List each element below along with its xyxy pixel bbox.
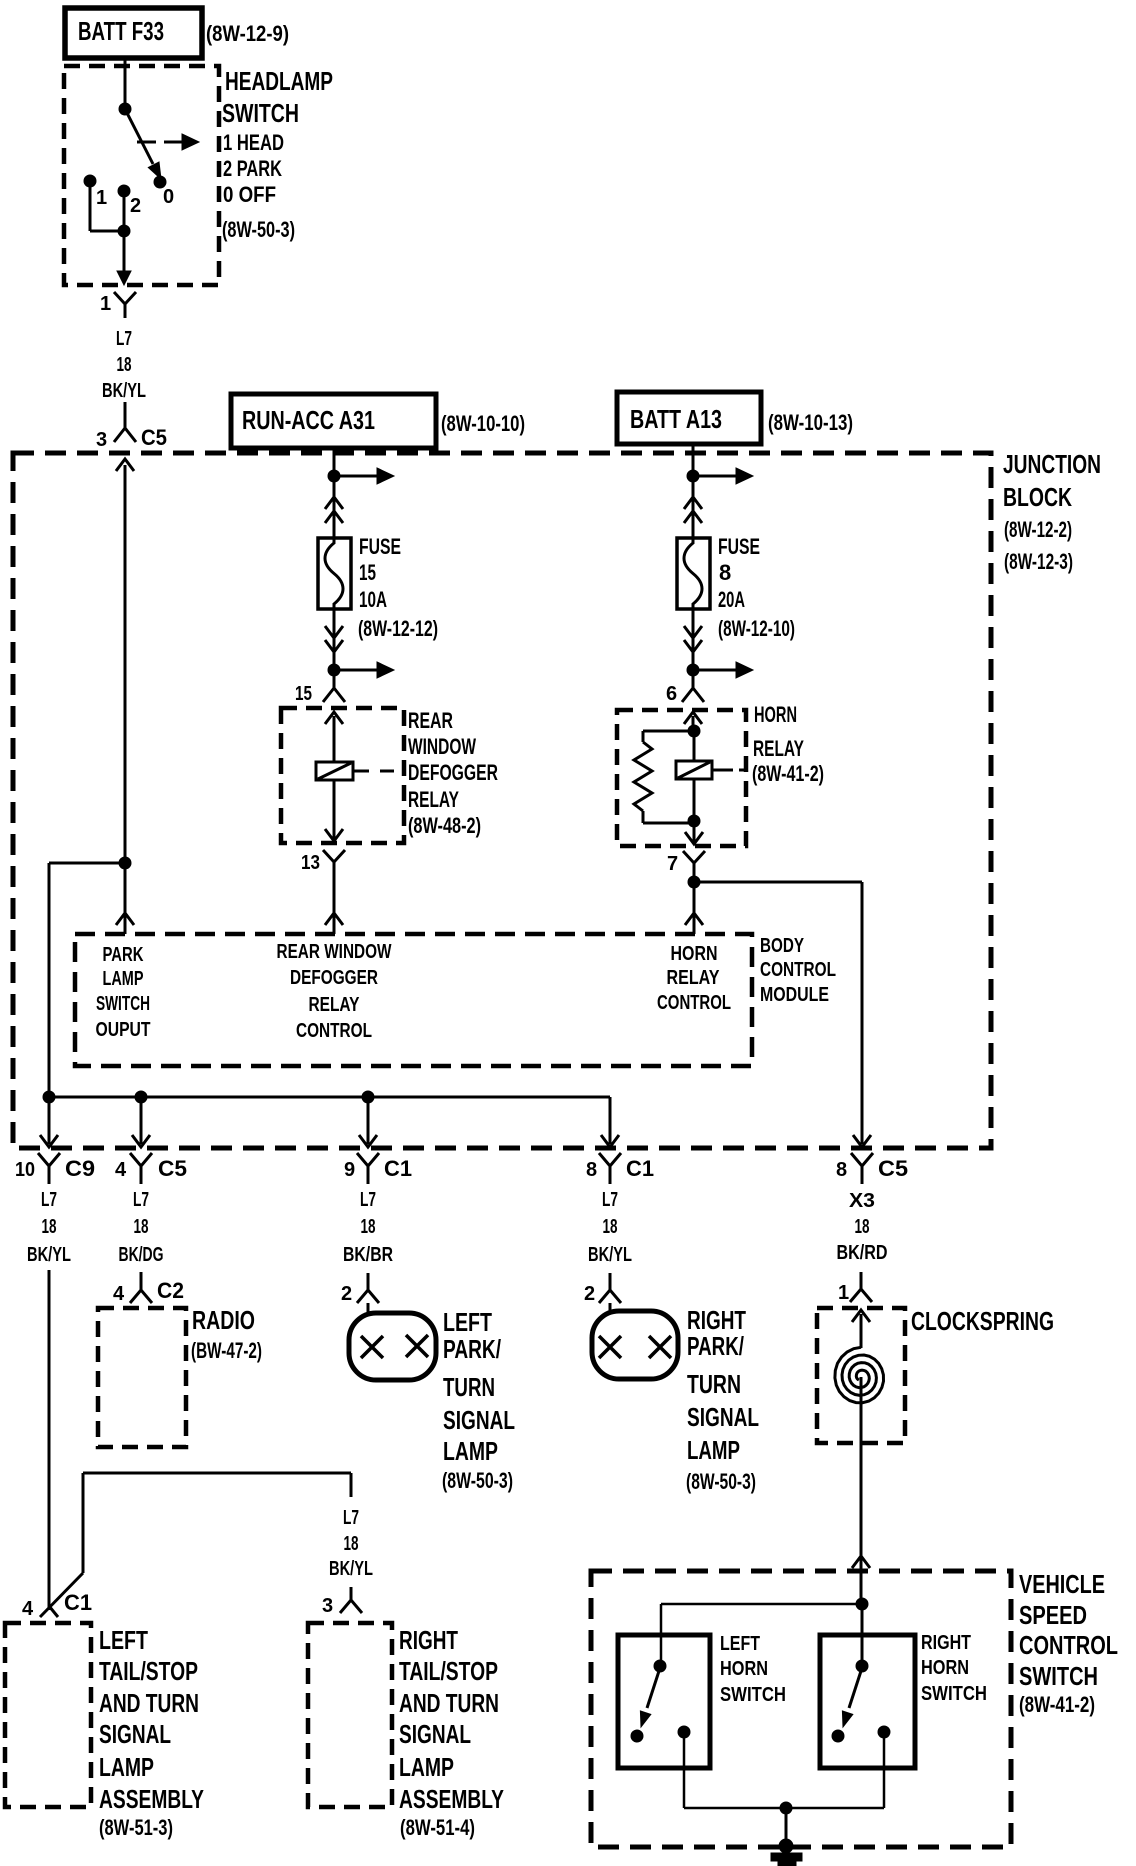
svg-text:JUNCTION: JUNCTION [1003, 449, 1101, 479]
svg-text:SWITCH: SWITCH [720, 1684, 786, 1706]
right horn switch lower contact [832, 1730, 844, 1742]
svg-text:HORN: HORN [754, 702, 797, 727]
svg-text:OUPUT: OUPUT [96, 1019, 151, 1041]
arrow exiting horn relay [685, 821, 703, 844]
reference (8W-51-4) [400, 1815, 475, 1840]
junction block title [1003, 449, 1101, 512]
circuit L7 18 BK/YL at right tail lamp [329, 1507, 373, 1580]
junction block dashed outline [13, 453, 991, 1148]
ground wires from horn switches [684, 1738, 884, 1808]
connector fork into defogger relay [323, 670, 345, 702]
left horn switch box [618, 1635, 710, 1768]
svg-text:4: 4 [113, 1283, 125, 1305]
circuit X3 18 BK/RD at C5 pin 8 [837, 1190, 888, 1264]
circuit label L7 18 BK/YL [102, 328, 146, 402]
circuit L7 18 BK/YL at C9 [27, 1189, 71, 1266]
svg-text:ASSEMBLY: ASSEMBLY [399, 1784, 504, 1814]
svg-text:HEADLAMP: HEADLAMP [225, 66, 333, 96]
radio dashed box [98, 1308, 186, 1447]
cavity 6 label [666, 683, 677, 705]
double chevron down on fuse 15 output [325, 626, 343, 652]
horn relay top node [688, 725, 700, 737]
bus node at C5 drop [135, 1091, 147, 1103]
svg-text:TAIL/STOP: TAIL/STOP [399, 1656, 498, 1686]
right horn switch box [820, 1635, 915, 1768]
drop wire to connector C9 [40, 1097, 58, 1147]
label 1 [96, 187, 107, 209]
fuse 15 label [359, 534, 401, 612]
clockspring coil spiral [835, 1347, 884, 1443]
wire into junction block connector C5 [124, 402, 127, 428]
ground G300 [771, 1839, 802, 1866]
branch arrow to other circuits [693, 468, 753, 484]
svg-text:LAMP: LAMP [399, 1752, 454, 1782]
svg-text:BK/YL: BK/YL [588, 1244, 632, 1266]
title RIGHT PARK/TURN SIGNAL LAMP [687, 1305, 759, 1465]
wire to right horn switch [861, 1604, 864, 1666]
svg-text:LAMP: LAMP [99, 1752, 154, 1782]
right horn switch output contact [878, 1726, 890, 1738]
wire contact1 to junction [90, 184, 122, 231]
arrow entering defogger relay [325, 712, 343, 762]
svg-text:2 PARK: 2 PARK [223, 156, 282, 181]
reference (8W-50-3) right lamp [686, 1469, 756, 1494]
svg-text:18: 18 [134, 1216, 149, 1238]
svg-text:LAMP: LAMP [443, 1436, 498, 1466]
svg-text:(8W-12-2): (8W-12-2) [1004, 517, 1072, 542]
svg-text:0: 0 [163, 186, 174, 208]
wire branch to right tail lamp [83, 1473, 351, 1573]
right horn switch pole [856, 1660, 868, 1672]
switch output wire with arrow to pin 1 [117, 231, 131, 285]
svg-text:8: 8 [586, 1159, 597, 1181]
branch arrow after fuse 8 [693, 662, 753, 678]
svg-text:WINDOW: WINDOW [408, 734, 476, 759]
svg-text:(8W-50-3): (8W-50-3) [442, 1468, 513, 1493]
svg-text:18: 18 [361, 1216, 376, 1238]
svg-text:SWITCH: SWITCH [921, 1683, 987, 1705]
svg-text:18: 18 [42, 1216, 57, 1238]
svg-text:TURN: TURN [687, 1369, 741, 1399]
wire BK/YL from C9 down to tail lamp connector [48, 1270, 51, 1610]
horn relay coil [676, 731, 712, 779]
circuit L7 18 BK/BR at C1 [343, 1189, 393, 1266]
svg-text:BATT F33: BATT F33 [78, 16, 164, 46]
svg-text:L7: L7 [41, 1189, 57, 1211]
title LEFT TAIL/STOP AND TURN SIGNAL LAMP ASSEMBLY [99, 1625, 204, 1814]
svg-text:SWITCH: SWITCH [1019, 1661, 1098, 1691]
svg-text:18: 18 [603, 1216, 618, 1238]
horn relay bottom node [688, 779, 700, 827]
right tail lamp connector pin 3 [322, 1587, 362, 1617]
in-line connector below headlamp switch [114, 292, 136, 318]
switch position 0 contact [154, 176, 166, 188]
svg-text:RUN-ACC A31: RUN-ACC A31 [242, 405, 375, 435]
svg-text:(8W-12-3): (8W-12-3) [1004, 549, 1073, 574]
bus node at C9 drop [43, 1091, 55, 1103]
wire horn relay control to BCM [685, 880, 703, 934]
junction block connector C5 pin 3 [96, 424, 167, 451]
wire fuse 15 output [333, 609, 336, 670]
bus node at C1 drop [362, 1091, 374, 1103]
svg-text:CONTROL: CONTROL [657, 992, 731, 1014]
svg-text:0 OFF: 0 OFF [223, 182, 276, 207]
svg-text:(8W-10-13): (8W-10-13) [768, 410, 853, 435]
wire RUN-ACC feed into fuse 15 [333, 448, 336, 538]
svg-text:RADIO: RADIO [192, 1305, 255, 1335]
svg-text:SPEED: SPEED [1019, 1600, 1087, 1630]
svg-text:TURN: TURN [443, 1372, 495, 1402]
legend 2 PARK [223, 156, 282, 181]
svg-text:15: 15 [359, 560, 376, 585]
svg-text:8: 8 [836, 1159, 847, 1181]
branch arrow to other circuits [334, 468, 394, 484]
svg-text:BATT A13: BATT A13 [630, 404, 722, 434]
left tail/stop lamp dashed box [5, 1623, 91, 1807]
svg-text:2: 2 [584, 1283, 595, 1305]
reference (8W-12-2) [1004, 517, 1072, 542]
circuit L7 18 BK/YL at C1 pin 8 [588, 1189, 632, 1266]
svg-text:SWITCH: SWITCH [96, 993, 150, 1015]
svg-text:HORN: HORN [921, 1657, 969, 1679]
in-line connector below horn relay [683, 851, 705, 880]
defogger relay output wire with arrow [325, 780, 343, 841]
svg-text:(8W-50-3): (8W-50-3) [222, 217, 295, 242]
reference (8W-51-3) [99, 1815, 173, 1840]
reference (8W-12-9) [206, 21, 289, 46]
left park/turn signal lamp bulb [349, 1313, 436, 1380]
svg-text:BK/RD: BK/RD [837, 1242, 888, 1264]
clockspring dashed box [817, 1308, 905, 1443]
svg-text:L7: L7 [133, 1189, 149, 1211]
svg-text:AND TURN: AND TURN [99, 1688, 199, 1718]
horn relay contact branch wire bottom [643, 811, 694, 823]
branch node after fuse 15 [328, 664, 340, 676]
svg-text:(8W-12-9): (8W-12-9) [206, 21, 289, 46]
svg-text:ASSEMBLY: ASSEMBLY [99, 1784, 204, 1814]
double chevron up on fuse 8 feed [684, 497, 702, 523]
svg-text:1: 1 [838, 1282, 849, 1304]
double chevron down on fuse 8 output [684, 626, 702, 652]
svg-text:REAR: REAR [408, 708, 453, 733]
reference (8W-41-2) [752, 761, 824, 786]
junction of contacts 1 and 2 [118, 225, 130, 237]
right tail/stop lamp dashed box [308, 1623, 392, 1807]
label HORN RELAY [753, 702, 804, 761]
svg-text:PARK: PARK [103, 944, 144, 966]
defogger relay coil dashed lead [353, 770, 394, 773]
svg-text:(8W-50-3): (8W-50-3) [686, 1469, 756, 1494]
legend 1 HEAD [223, 130, 284, 155]
branch node after fuse 8 [687, 664, 699, 676]
svg-text:1: 1 [96, 187, 107, 209]
reference (8W-12-3) [1004, 549, 1073, 574]
legend 0 OFF [223, 182, 276, 207]
svg-text:LEFT: LEFT [443, 1307, 492, 1337]
wire defogger relay control to BCM [325, 880, 343, 934]
tail lamp connector C1 pin 4 [22, 1590, 92, 1620]
svg-text:RELAY: RELAY [667, 967, 721, 989]
wire from BATT F33 into headlamp switch [124, 58, 127, 104]
svg-text:(8W-41-2): (8W-41-2) [752, 761, 824, 786]
switch position 2 contact [118, 185, 130, 197]
right park lamp connector pin 2 [584, 1273, 621, 1305]
connector C5 pin 4 [115, 1153, 187, 1184]
svg-text:HORN: HORN [671, 943, 718, 965]
svg-text:1: 1 [100, 293, 111, 315]
svg-text:CLOCKSPRING: CLOCKSPRING [911, 1306, 1054, 1336]
park lamp output bus wire [49, 1097, 619, 1147]
svg-text:4: 4 [22, 1598, 34, 1620]
svg-text:PARK/: PARK/ [687, 1331, 744, 1361]
reference (BW-47-2) [191, 1338, 262, 1363]
svg-text:(8W-10-10): (8W-10-10) [441, 411, 525, 436]
svg-text:C5: C5 [158, 1156, 187, 1181]
svg-text:LAMP: LAMP [103, 968, 144, 990]
svg-text:L7: L7 [343, 1507, 359, 1529]
svg-text:8: 8 [719, 560, 731, 585]
svg-text:VEHICLE: VEHICLE [1019, 1569, 1105, 1599]
wire to left horn switch [661, 1604, 862, 1666]
svg-text:2: 2 [341, 1283, 352, 1305]
svg-text:L7: L7 [360, 1189, 376, 1211]
connector C9 pin 10 [15, 1153, 95, 1184]
svg-text:TAIL/STOP: TAIL/STOP [99, 1656, 198, 1686]
wire park lamp output to BCM with chevron [116, 863, 134, 934]
wire to ground [785, 1808, 788, 1844]
wire clockspring to vehicle speed control switch [852, 1443, 870, 1604]
svg-text:LEFT: LEFT [720, 1633, 760, 1655]
svg-text:C5: C5 [141, 425, 167, 450]
wire branch from horn relay control to connector C5 [694, 882, 871, 1147]
svg-text:BODY: BODY [760, 935, 804, 957]
svg-text:C2: C2 [157, 1278, 184, 1303]
horn relay contact resistor zigzag [634, 742, 652, 811]
horn feed node inside switch [856, 1598, 868, 1610]
BCM label REAR WINDOW DEFOGGER RELAY CONTROL [277, 941, 392, 1042]
svg-text:LAMP: LAMP [687, 1435, 740, 1465]
branch node on BATT feed [687, 470, 699, 482]
label RIGHT HORN SWITCH [921, 1632, 987, 1705]
splice diagonal into connector C1 [40, 1573, 83, 1617]
branch arrow after fuse 15 [334, 662, 394, 678]
svg-text:REAR WINDOW: REAR WINDOW [277, 941, 392, 963]
svg-text:HORN: HORN [720, 1658, 768, 1680]
left park lamp connector pin 2 [341, 1273, 379, 1305]
in-line connector below defogger relay [323, 850, 345, 880]
label LEFT HORN SWITCH [720, 1633, 786, 1706]
ground junction node [780, 1802, 792, 1814]
svg-text:7: 7 [667, 853, 678, 875]
svg-text:RIGHT: RIGHT [921, 1632, 971, 1654]
branch node on RUN-ACC feed [328, 470, 340, 482]
svg-text:18: 18 [855, 1216, 870, 1238]
horn relay contact branch wire left [643, 731, 694, 742]
BCM label HORN RELAY CONTROL [657, 943, 731, 1014]
actuation direction dashed arrow [137, 134, 199, 150]
right horn switch arm with arrowhead [842, 1671, 861, 1727]
left horn switch arm with arrowhead [640, 1671, 659, 1727]
svg-text:10A: 10A [359, 587, 387, 612]
wire into left park/turn signal lamp [367, 1303, 370, 1313]
svg-text:C1: C1 [626, 1156, 654, 1181]
svg-text:(8W-41-2): (8W-41-2) [1019, 1692, 1095, 1717]
wire BATT A13 feed into fuse 8 [692, 444, 695, 538]
svg-text:C1: C1 [384, 1156, 412, 1181]
wire BK/YL inside junction block down to park lamp branch [124, 465, 127, 863]
title LEFT PARK/TURN SIGNAL LAMP [443, 1307, 515, 1466]
svg-text:6: 6 [666, 683, 677, 705]
reference (8W-10-13) [768, 410, 853, 435]
svg-text:(8W-51-3): (8W-51-3) [99, 1815, 173, 1840]
svg-text:CONTROL: CONTROL [760, 959, 836, 981]
wire contact2 to junction [123, 194, 126, 231]
svg-text:13: 13 [301, 852, 320, 874]
wire into right park/turn signal lamp [609, 1303, 612, 1311]
svg-text:CONTROL: CONTROL [296, 1020, 372, 1042]
switch position 1 contact [84, 175, 96, 187]
label BODY CONTROL MODULE [760, 935, 836, 1006]
drop wire to connector C1 [359, 1097, 377, 1147]
svg-text:15: 15 [295, 683, 312, 705]
switch wiper arm with arrowhead [125, 109, 161, 179]
title RIGHT TAIL/STOP AND TURN SIGNAL LAMP ASSEMBLY [399, 1625, 504, 1814]
label 2 [130, 195, 141, 217]
svg-text:4: 4 [115, 1159, 127, 1181]
cavity 15 label [295, 683, 312, 705]
svg-text:DEFOGGER: DEFOGGER [408, 760, 498, 785]
reference (8W-12-10) [718, 616, 795, 641]
svg-text:10: 10 [15, 1159, 35, 1181]
svg-text:18: 18 [117, 354, 132, 376]
defogger relay coil [316, 762, 353, 780]
svg-text:RELAY: RELAY [753, 736, 804, 761]
title CLOCKSPRING [911, 1306, 1054, 1336]
reference (8W-50-3) left lamp [442, 1468, 513, 1493]
svg-text:SWITCH: SWITCH [222, 98, 299, 128]
svg-text:BK/YL: BK/YL [102, 380, 146, 402]
svg-text:(8W-12-10): (8W-12-10) [718, 616, 795, 641]
svg-text:(BW-47-2): (BW-47-2) [191, 1338, 262, 1363]
power feed box RUN-ACC A31 [231, 394, 436, 448]
svg-text:9: 9 [344, 1159, 355, 1181]
svg-text:DEFOGGER: DEFOGGER [290, 967, 378, 989]
body control module dashed box [75, 934, 752, 1066]
headlamp switch common pole node [119, 103, 131, 115]
svg-text:BK/DG: BK/DG [119, 1244, 164, 1266]
title RADIO [192, 1305, 255, 1335]
svg-text:2: 2 [130, 195, 141, 217]
svg-text:BLOCK: BLOCK [1003, 482, 1072, 512]
left horn switch output contact [678, 1726, 690, 1738]
svg-text:SIGNAL: SIGNAL [399, 1719, 471, 1749]
svg-text:(8W-48-2): (8W-48-2) [408, 813, 481, 838]
connector fork into horn relay [682, 670, 704, 702]
connector C5 pin 8 [836, 1153, 908, 1184]
wire fuse 8 output [692, 609, 695, 670]
arrow entering clockspring [852, 1310, 870, 1348]
double chevron up on fuse 15 feed [325, 497, 343, 523]
left horn switch pole [654, 1660, 666, 1672]
park lamp output branch node [119, 857, 131, 869]
fuse 8 label [718, 534, 760, 612]
svg-text:PARK/: PARK/ [443, 1334, 501, 1364]
horn relay coil dashed lead [712, 769, 746, 772]
svg-text:FUSE: FUSE [718, 534, 760, 559]
svg-text:CONTROL: CONTROL [1019, 1630, 1118, 1660]
svg-text:BK/YL: BK/YL [329, 1558, 373, 1580]
svg-text:BK/YL: BK/YL [27, 1244, 71, 1266]
arrow entering horn relay [684, 712, 702, 731]
svg-text:3: 3 [322, 1595, 333, 1617]
drop wire to connector C5 [132, 1097, 150, 1147]
svg-text:(8W-12-12): (8W-12-12) [358, 616, 438, 641]
svg-text:X3: X3 [849, 1190, 875, 1212]
label REAR WINDOW DEFOGGER RELAY [408, 708, 498, 812]
svg-text:L7: L7 [116, 328, 132, 350]
fuse 15 [318, 538, 351, 609]
power feed box BATT F33 [65, 8, 202, 58]
headlamp switch pin 1 label [100, 293, 111, 315]
rear window defogger relay dashed box [281, 708, 404, 843]
horn relay pin 7 label [667, 853, 678, 875]
label 0 [163, 186, 174, 208]
svg-text:RIGHT: RIGHT [399, 1625, 458, 1655]
reference (8W-48-2) [408, 813, 481, 838]
reference (8W-41-2) switch [1019, 1692, 1095, 1717]
title HEADLAMP SWITCH [222, 66, 333, 128]
svg-text:C9: C9 [65, 1156, 95, 1181]
reference (8W-12-12) [358, 616, 438, 641]
svg-text:LEFT: LEFT [99, 1625, 148, 1655]
headlamp switch S1 dashed box [64, 66, 219, 285]
svg-text:C5: C5 [878, 1156, 908, 1181]
horn relay dashed box [617, 710, 746, 846]
svg-text:FUSE: FUSE [359, 534, 401, 559]
left horn switch lower contact [631, 1730, 643, 1742]
wire branch left from park lamp output [49, 863, 125, 1097]
right park/turn signal lamp bulb [592, 1311, 678, 1379]
defogger relay pin 13 label [301, 852, 320, 874]
circuit L7 18 BK/DG at C5 [119, 1189, 164, 1266]
svg-text:SIGNAL: SIGNAL [443, 1405, 515, 1435]
svg-text:AND TURN: AND TURN [399, 1688, 499, 1718]
horn relay control branch node [688, 876, 700, 888]
svg-text:C1: C1 [64, 1590, 92, 1615]
svg-text:RELAY: RELAY [309, 994, 361, 1016]
clockspring connector pin 1 [838, 1272, 872, 1304]
reference (8W-10-10) [441, 411, 525, 436]
svg-text:L7: L7 [602, 1189, 618, 1211]
svg-text:BK/BR: BK/BR [343, 1244, 393, 1266]
svg-text:RELAY: RELAY [408, 787, 459, 812]
title VEHICLE SPEED CONTROL SWITCH [1019, 1569, 1118, 1691]
connector C1 pin 9 [344, 1153, 412, 1184]
svg-text:20A: 20A [718, 587, 745, 612]
svg-text:1 HEAD: 1 HEAD [223, 130, 284, 155]
svg-text:3: 3 [96, 429, 107, 451]
svg-text:SIGNAL: SIGNAL [99, 1719, 171, 1749]
svg-text:SIGNAL: SIGNAL [687, 1402, 759, 1432]
fuse 8 [677, 538, 710, 609]
radio connector C2 pin 4 [113, 1272, 184, 1305]
vehicle speed control switch dashed box [591, 1571, 1011, 1847]
svg-text:(8W-51-4): (8W-51-4) [400, 1815, 475, 1840]
power feed box BATT A13 [617, 392, 761, 444]
connector C1 pin 8 [586, 1153, 654, 1184]
chevron where BK/YL wire enters junction block [116, 459, 134, 471]
svg-text:MODULE: MODULE [760, 984, 829, 1006]
